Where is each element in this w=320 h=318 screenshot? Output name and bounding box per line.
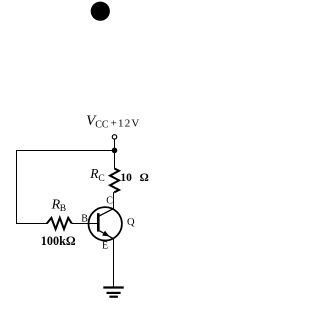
wire top horizontal [16, 150, 115, 152]
svg-text:C: C [106, 196, 113, 207]
svg-text:B: B [60, 204, 66, 214]
wire RB to base [72, 223, 98, 225]
wire collector up [113, 192, 115, 209]
svg-text:Ω: Ω [140, 172, 149, 184]
svg-text:+12V: +12V [111, 118, 141, 130]
svg-text:Q: Q [127, 217, 135, 228]
resistor RC (vertical zigzag) [110, 169, 119, 193]
value label 10 Ohm [120, 172, 148, 184]
ground [103, 288, 123, 297]
svg-text:C: C [98, 174, 104, 184]
VCC terminal (open circle) [112, 135, 116, 139]
wire junction to RC [114, 151, 116, 169]
wire bottom left horizontal [16, 223, 47, 225]
wire RC to collector [113, 192, 115, 209]
transistor Q (NPN) [89, 207, 122, 240]
svg-text:B: B [81, 213, 88, 224]
junction dot [112, 148, 118, 154]
resistor RB (horizontal zigzag) [47, 218, 72, 229]
svg-text:CC: CC [95, 119, 109, 130]
node VCC label "VCC +12V" [86, 113, 140, 131]
svg-text:10: 10 [120, 172, 132, 184]
wire emitter down [113, 239, 115, 287]
wire left vertical [16, 150, 18, 224]
wire terminal to junction [114, 139, 116, 150]
bullet marker [91, 2, 110, 21]
label RB [51, 197, 67, 214]
label RC [89, 166, 105, 184]
svg-text:E: E [102, 240, 108, 251]
svg-text:100kΩ: 100kΩ [41, 234, 76, 248]
